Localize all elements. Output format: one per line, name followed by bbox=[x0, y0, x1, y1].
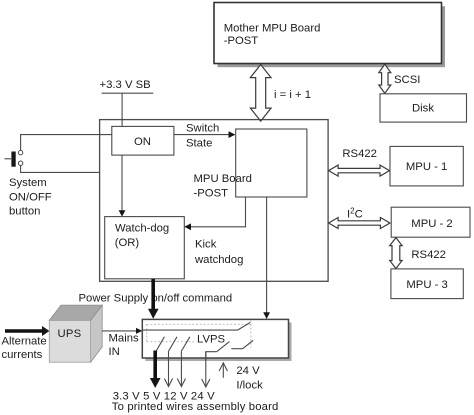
double arrow RS422 MPU-2 to MPU-3 bbox=[390, 238, 402, 269]
wire mains in UPS to LVPS bbox=[102, 328, 142, 358]
block ON bbox=[112, 126, 174, 155]
switch blade 12V bbox=[181, 337, 190, 351]
svg-text:IN: IN bbox=[109, 346, 120, 358]
svg-text:I/lock: I/lock bbox=[236, 380, 263, 392]
switch blade 3.3V bbox=[156, 337, 164, 351]
block Watch-dog (OR) bbox=[105, 217, 185, 279]
wire 24V fixed segment bbox=[231, 348, 242, 350]
block LVPS bbox=[142, 319, 288, 358]
svg-text:Switch: Switch bbox=[186, 122, 219, 134]
svg-text:Disk: Disk bbox=[412, 103, 434, 115]
output 24V bbox=[202, 352, 210, 387]
dashed control rect inside LVPS bbox=[147, 320, 251, 347]
svg-text:ON: ON bbox=[134, 136, 151, 148]
svg-text:Kick: Kick bbox=[195, 239, 217, 251]
switch blade 24V b bbox=[243, 340, 254, 348]
block MPU-2 bbox=[391, 207, 470, 237]
wire kick watchdog bbox=[184, 197, 245, 266]
svg-text:To printed wires assembly boar: To printed wires assembly board bbox=[112, 401, 279, 413]
output 12V bbox=[177, 351, 185, 386]
thick output 3.3V bbox=[150, 351, 161, 389]
block Mother MPU Board bbox=[214, 3, 442, 64]
svg-text:Power Supply on/off command: Power Supply on/off command bbox=[79, 293, 233, 305]
block LVPS shadow bbox=[145, 322, 291, 361]
svg-text:Alternate: Alternate bbox=[2, 335, 47, 347]
double arrow SCSI bbox=[379, 64, 391, 93]
svg-text:24 V: 24 V bbox=[236, 365, 260, 377]
svg-text:currents: currents bbox=[2, 349, 43, 361]
wire ON down to watchdog bbox=[119, 155, 126, 217]
svg-text:ON/OFF: ON/OFF bbox=[9, 191, 52, 203]
wire button bottom to enclosure bbox=[21, 165, 100, 172]
svg-text:+3.3 V SB: +3.3 V SB bbox=[100, 79, 151, 91]
block MPU-3 bbox=[391, 269, 463, 299]
svg-text:RS422: RS422 bbox=[342, 148, 377, 160]
block MPU Board -POST bbox=[194, 129, 307, 199]
svg-text:Watch-dog: Watch-dog bbox=[115, 223, 169, 235]
svg-text:(OR): (OR) bbox=[115, 237, 140, 249]
svg-text:System: System bbox=[9, 177, 47, 189]
pushbutton System ON/OFF bbox=[5, 150, 52, 217]
wire mains inside LVPS bbox=[142, 329, 237, 331]
switch blade 24V a bbox=[217, 342, 230, 352]
enclosure big box bbox=[100, 120, 329, 282]
svg-text:MPU - 2: MPU - 2 bbox=[411, 218, 452, 230]
switch blade main bbox=[238, 322, 251, 330]
svg-text:RS422: RS422 bbox=[411, 249, 446, 261]
svg-text:Mains: Mains bbox=[109, 332, 139, 344]
wire 24V branch bbox=[206, 352, 217, 360]
svg-text:button: button bbox=[9, 205, 40, 217]
svg-text:MPU - 3: MPU - 3 bbox=[406, 279, 447, 291]
wire MPU board to LVPS on/off command bbox=[263, 197, 270, 319]
output 5V bbox=[164, 351, 172, 386]
svg-text:LVPS: LVPS bbox=[197, 334, 226, 346]
net +3.3 V SB bbox=[100, 79, 154, 127]
svg-text:-POST: -POST bbox=[224, 35, 259, 47]
svg-text:I2C: I2C bbox=[347, 207, 363, 221]
block UPS (3d) bbox=[49, 305, 102, 362]
double arrow Mother to MPU enclosure (i = i + 1) bbox=[250, 65, 271, 122]
svg-text:UPS: UPS bbox=[58, 328, 82, 340]
thick arrow alternate currents into UPS bbox=[2, 326, 50, 361]
wire button top to ON bbox=[21, 135, 112, 151]
svg-text:State: State bbox=[186, 137, 212, 149]
block MPU-1 bbox=[390, 146, 463, 186]
block Disk bbox=[380, 94, 467, 122]
switch blade 5V bbox=[169, 337, 178, 351]
double arrow RS422 to MPU-1 bbox=[329, 165, 390, 176]
svg-text:MPU - 1: MPU - 1 bbox=[406, 161, 447, 173]
svg-text:Mother MPU Board: Mother MPU Board bbox=[224, 22, 321, 34]
wire Switch State arrow bbox=[174, 122, 236, 149]
svg-text:MPU Board: MPU Board bbox=[194, 173, 252, 185]
svg-text:watchdog: watchdog bbox=[194, 254, 243, 266]
svg-text:i = i + 1: i = i + 1 bbox=[274, 89, 311, 101]
double arrow I2C to MPU-2 bbox=[329, 218, 390, 229]
block Mother MPU Board shadow bbox=[218, 6, 446, 67]
svg-text:-POST: -POST bbox=[194, 187, 229, 199]
arrow 24V interlock up bbox=[219, 363, 263, 392]
svg-text:SCSI: SCSI bbox=[394, 74, 420, 86]
thick wire watchdog to LVPS bbox=[148, 279, 159, 319]
